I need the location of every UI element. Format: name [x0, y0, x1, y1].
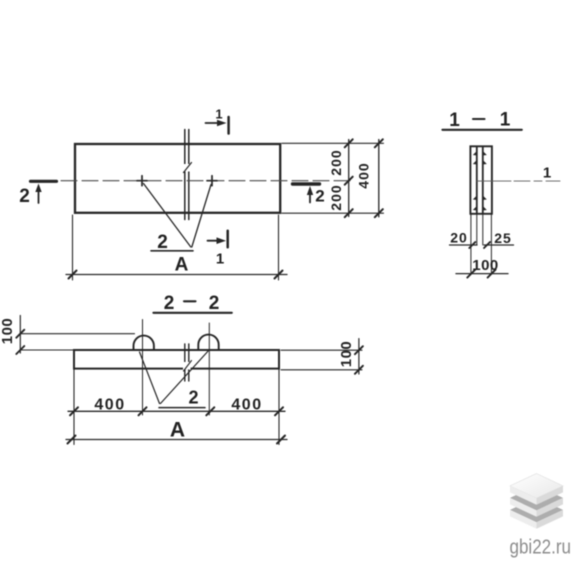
svg-text:400: 400	[94, 397, 125, 414]
svg-text:2: 2	[315, 187, 324, 206]
svg-text:gbi22.ru: gbi22.ru	[510, 537, 572, 559]
svg-text:1: 1	[215, 107, 222, 122]
svg-text:1: 1	[216, 251, 224, 268]
svg-text:2: 2	[209, 293, 220, 314]
svg-text:2: 2	[19, 186, 30, 207]
svg-text:100: 100	[472, 257, 499, 274]
svg-text:100: 100	[338, 341, 355, 368]
svg-text:400: 400	[356, 162, 372, 188]
svg-text:200: 200	[328, 149, 344, 175]
svg-text:A: A	[175, 255, 189, 276]
svg-text:1: 1	[543, 165, 551, 182]
svg-text:2: 2	[188, 388, 198, 408]
svg-text:25: 25	[494, 230, 512, 246]
svg-text:20: 20	[450, 229, 468, 245]
svg-text:100: 100	[0, 318, 16, 345]
svg-text:2: 2	[164, 293, 175, 314]
svg-text:2: 2	[157, 232, 168, 253]
svg-text:1: 1	[500, 110, 511, 131]
svg-text:200: 200	[328, 184, 344, 210]
svg-text:1: 1	[449, 110, 460, 131]
svg-text:A: A	[170, 419, 185, 442]
svg-text:400: 400	[231, 397, 262, 414]
